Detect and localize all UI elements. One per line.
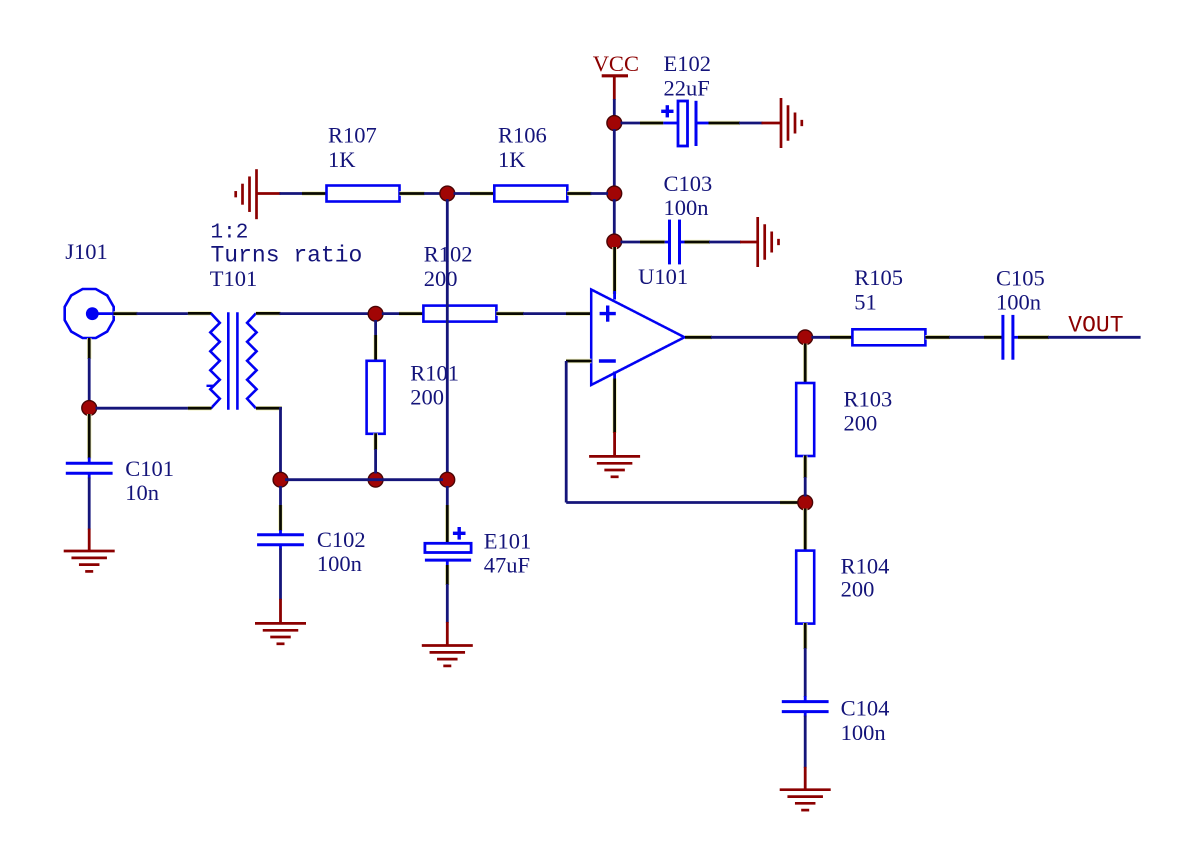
pin R101 bottom [373, 433, 378, 450]
resistor R102 [423, 242, 496, 322]
net VOUT [1048, 313, 1141, 339]
pin R101 top [373, 335, 378, 361]
pin R106 right [567, 191, 591, 196]
ground (right of C103) [740, 217, 779, 267]
ground (below C104) [780, 790, 831, 810]
svg-text:200: 200 [841, 577, 875, 602]
resistor R104 [796, 551, 889, 624]
svg-text:47uF: 47uF [484, 553, 530, 578]
pin C105 left [984, 335, 1003, 340]
resistor R106 [494, 123, 567, 202]
pin C103 right [685, 240, 711, 245]
junction VCC/C103 node [607, 234, 622, 249]
pin U101 -input [566, 359, 592, 364]
svg-text:R105: R105 [854, 265, 903, 290]
svg-text:T101: T101 [210, 266, 257, 291]
wire C104 to ground [804, 716, 807, 790]
pin R105 right [925, 335, 950, 340]
capacitor C104 100n [782, 696, 890, 745]
pin R104 bottom [803, 623, 808, 649]
wire feedback horizontal [566, 501, 781, 504]
svg-text:C101: C101 [125, 456, 174, 481]
svg-text:Turns ratio: Turns ratio [211, 243, 363, 269]
svg-text:R103: R103 [844, 386, 893, 411]
pin U101 +input [566, 311, 592, 316]
pin J101 signal [114, 311, 138, 316]
wire node to T101 primary [96, 407, 189, 410]
svg-text:C104: C104 [841, 696, 890, 721]
svg-text:R107: R107 [328, 123, 377, 148]
svg-text:1:2: 1:2 [211, 221, 249, 244]
svg-text:22uF: 22uF [664, 75, 710, 100]
svg-text:C102: C102 [317, 527, 366, 552]
pin R107 right [400, 191, 425, 196]
junction feedback node [798, 495, 813, 510]
pin C105 right [1018, 335, 1049, 340]
wire R105 to C105 [949, 336, 985, 339]
wire VCC rail upper [613, 99, 616, 117]
svg-text:100n: 100n [996, 290, 1041, 315]
pin C101 top [87, 414, 92, 459]
svg-text:VOUT: VOUT [1068, 313, 1123, 339]
svg-text:200: 200 [844, 411, 878, 436]
pin E101 bottom [445, 565, 450, 585]
junction output node [798, 330, 813, 345]
pin E102 right [709, 121, 741, 126]
ground (right of E102) [762, 98, 802, 148]
wire op-amp to ground [613, 432, 616, 456]
transformer T101 [207, 221, 363, 409]
svg-text:E101: E101 [484, 529, 532, 554]
svg-text:VCC: VCC [593, 51, 639, 76]
wire C102 to ground [279, 549, 282, 624]
wire C103 to ground [709, 241, 741, 244]
resistor R107 [327, 123, 400, 202]
wire R102 crossover [446, 199, 449, 474]
resistor R105 [852, 265, 925, 345]
ground (below U101) [589, 456, 640, 476]
svg-text:100n: 100n [317, 551, 362, 576]
wire VCC rail mid1 [613, 129, 616, 188]
wire node to R105 [811, 336, 831, 339]
wire T101 to R102 node [280, 312, 371, 315]
ground (below E101) [422, 646, 473, 666]
resistor R101 [367, 361, 459, 434]
pin R105 left [830, 335, 852, 340]
wire C101 to ground [88, 478, 91, 552]
wire E102 to ground [739, 122, 763, 125]
wire R103 to node [804, 477, 807, 497]
power symbol VCC [593, 51, 639, 100]
pin R106 left [470, 191, 494, 196]
svg-text:R104: R104 [841, 554, 890, 579]
wire node to R106 [454, 192, 472, 195]
ground (below C101) [64, 551, 115, 571]
wire bottom rail [285, 478, 443, 481]
ground (left of R107) [236, 169, 281, 219]
wire node to E101 [446, 486, 449, 506]
junction rail/E101 node [440, 472, 455, 487]
wire R101 to rail [374, 449, 377, 474]
pin J101 shield [87, 338, 92, 359]
connector J101 [65, 239, 115, 338]
wire VCC node to C103 [621, 241, 642, 244]
svg-text:J101: J101 [65, 239, 108, 264]
pin R103 top [803, 344, 808, 384]
pin C102 top [278, 505, 283, 531]
pin T101 secondary top [256, 311, 281, 316]
svg-text:C105: C105 [996, 265, 1045, 290]
svg-text:U101: U101 [638, 264, 688, 289]
pin E102 left [640, 121, 663, 126]
pin feedback to node [780, 500, 799, 505]
wire R104 to C104 [804, 648, 807, 697]
pin R107 left [302, 191, 327, 196]
pin C103 left [640, 240, 665, 245]
pin T101 secondary bottom [256, 406, 282, 411]
svg-text:200: 200 [410, 385, 444, 410]
svg-text:100n: 100n [841, 720, 886, 745]
pin R103 bottom [803, 456, 808, 479]
wire node to R101 [374, 320, 377, 336]
svg-text:C103: C103 [664, 171, 713, 196]
capacitor E101 (polarized 47uF) [425, 527, 531, 578]
svg-text:100n: 100n [664, 195, 709, 220]
wire T101 secondary down [279, 407, 282, 474]
wire R107 to node [424, 192, 441, 195]
op-amp U101 [591, 264, 688, 385]
pin R102 left [399, 311, 423, 316]
wire output to node [711, 336, 799, 339]
wire node to R102 [382, 312, 400, 315]
junction VCC/E102 node [607, 116, 622, 131]
wire E101 to ground [446, 584, 449, 646]
capacitor C105 100n [996, 265, 1045, 359]
svg-text:200: 200 [424, 266, 458, 291]
resistor R103 [796, 383, 892, 456]
junction input/R101 node [368, 306, 383, 321]
junction rail/R101 node [368, 472, 383, 487]
pin T101 primary bottom [188, 406, 212, 411]
wire J101 to node [88, 358, 91, 402]
capacitor C101 10n [66, 456, 174, 505]
svg-text:R101: R101 [410, 361, 459, 386]
svg-text:R106: R106 [498, 123, 547, 148]
pin E101 top [445, 505, 450, 543]
wire VCC node to E102 [621, 122, 642, 125]
pin R102 right [496, 311, 524, 316]
junction rail/C102 node [273, 472, 288, 487]
pin T101 primary top [188, 311, 212, 316]
svg-text:51: 51 [854, 289, 877, 314]
capacitor C102 100n [257, 527, 366, 576]
op-amp U101 power pin [612, 247, 617, 300]
svg-text:1K: 1K [328, 147, 356, 172]
op-amp U101 ground pin [613, 372, 616, 434]
wire R106 to VCC rail [591, 192, 609, 195]
wire VCC rail mid2 [613, 199, 616, 236]
junction J101/C101 node [82, 401, 97, 416]
wire J101 to T101 [137, 312, 189, 315]
wire rail to C102 [279, 486, 282, 506]
pin U101 output [685, 335, 712, 340]
svg-text:E102: E102 [664, 51, 712, 76]
capacitor C103 100n [664, 171, 713, 265]
wire R102 to op-amp [523, 312, 567, 315]
wire ground to R107 [280, 192, 304, 195]
svg-text:10n: 10n [125, 480, 159, 505]
pin R104 top [803, 509, 808, 552]
svg-text:1K: 1K [498, 147, 526, 172]
ground (below C102) [255, 623, 306, 643]
capacitor E102 (polarized 22uF) [661, 51, 711, 146]
junction R107/R106/R102 node [440, 186, 455, 201]
junction VCC/R106 node [607, 186, 622, 201]
wire feedback vertical [565, 361, 568, 503]
